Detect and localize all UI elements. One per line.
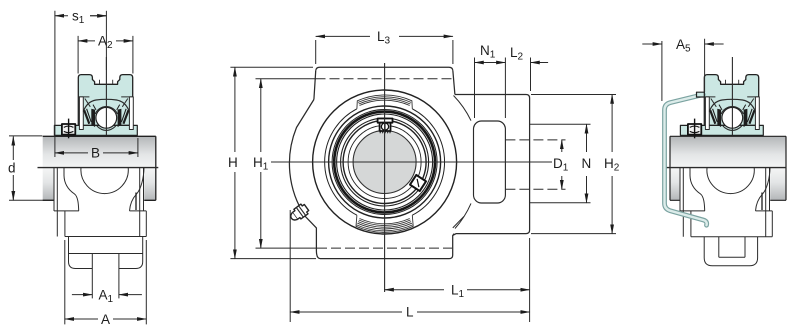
frame web edge right [145, 211, 147, 237]
hidden dashed edges [316, 79, 453, 248]
side profile [453, 95, 530, 236]
frame right boss [130, 168, 147, 237]
svg-text:d: d [8, 161, 16, 176]
white side slots [79, 97, 83, 130]
frame rail edge [38, 167, 159, 169]
outer raceway arc [95, 107, 117, 114]
d dimension [12, 136, 14, 160]
svg-text:L3: L3 [377, 29, 391, 47]
take-up frame silhouette (right view) [666, 168, 786, 266]
svg-text:A2: A2 [98, 34, 113, 52]
svg-text:A5: A5 [676, 37, 691, 55]
housing lug for cover [697, 92, 705, 97]
frame lower block [691, 236, 772, 238]
H [234, 67, 236, 152]
L1 [529, 238, 531, 322]
H / H1 extension lines [230, 67, 316, 258]
take-up frame silhouette (left view) [38, 168, 159, 299]
grub screw lower-right [410, 175, 426, 191]
B dimension [55, 152, 88, 154]
svg-text:H: H [228, 155, 238, 170]
extension lines [54, 11, 56, 157]
frame S-curve right [130, 168, 145, 211]
A dimension [65, 318, 98, 320]
shaft (left view) [43, 136, 156, 200]
frame web edge left [690, 211, 692, 237]
blue housing block with top notch [78, 75, 132, 126]
frame S-curve left [64, 168, 79, 211]
frame left boss [680, 168, 705, 237]
bearing housing cross-section (left view) [54, 57, 137, 138]
frame S-curve right [756, 168, 771, 211]
svg-text:L: L [406, 305, 414, 320]
frame right tab [135, 193, 137, 211]
collar band [54, 125, 137, 135]
frame web edge left [64, 211, 66, 237]
grease nipple (front view) [288, 203, 310, 224]
dimensions (middle view) [230, 36, 616, 322]
D1 / N / H2 ext [530, 124, 591, 203]
set screw (side view) [62, 119, 75, 139]
s1 dimension [55, 15, 107, 17]
L3 [316, 40, 453, 64]
A1 dimension [72, 294, 92, 296]
bearing centerline [105, 57, 107, 135]
shaft disc [353, 131, 416, 194]
top edge + corners [314, 67, 455, 99]
frame right tab [761, 193, 763, 211]
left body arc [289, 100, 454, 259]
notch inner ticks [100, 80, 113, 85]
housing joint lines [78, 97, 132, 107]
A5 dimension [642, 39, 723, 101]
svg-text:L1: L1 [451, 283, 465, 301]
A2 dimension [78, 40, 95, 42]
ball [96, 107, 117, 128]
D1 [561, 140, 563, 152]
N1 / L2 [475, 58, 531, 119]
ribbed tabs top & bottom [356, 95, 413, 232]
svg-text:L2: L2 [510, 45, 524, 63]
frame rail edge [666, 167, 786, 169]
svg-text:B: B [91, 146, 100, 161]
svg-text:N1: N1 [480, 43, 496, 61]
bearing housing cross-section (right view) [680, 57, 763, 138]
frame web edge right [771, 211, 773, 237]
svg-text:A: A [101, 312, 110, 327]
svg-text:s1: s1 [72, 9, 85, 27]
cage arcs [97, 126, 116, 130]
shaft (right view) [670, 136, 786, 200]
frame left boss [54, 168, 79, 237]
end cover (right view) [665, 92, 707, 225]
saddle arc [81, 168, 128, 194]
saddle arc [707, 168, 754, 194]
N [586, 124, 588, 152]
H1 [260, 79, 262, 152]
centerlines [268, 161, 562, 163]
spherical seat arc [83, 99, 129, 111]
frame screw column [92, 254, 119, 299]
cover sheet-metal profile [665, 95, 707, 226]
concentric rings [313, 90, 457, 234]
grub screw top [378, 119, 393, 134]
H2 [611, 95, 613, 153]
svg-text:N: N [582, 156, 592, 171]
seals and race shoulders dark [91, 109, 121, 127]
cartridge rounded rect in profile [474, 121, 506, 203]
dimensions (left view) [9, 11, 146, 325]
frame lower block [65, 236, 146, 238]
L [289, 210, 291, 322]
frame S-curve left [690, 168, 705, 211]
combined outline: front housing + right side profile [297, 67, 530, 258]
frame right boss [756, 168, 773, 237]
right body arc [453, 96, 471, 229]
